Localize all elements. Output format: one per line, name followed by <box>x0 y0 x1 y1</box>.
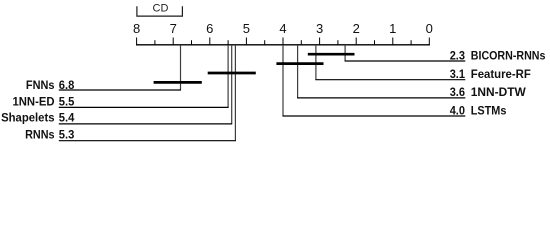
svg-text:CD: CD <box>153 3 169 15</box>
stem Feature-RF <box>315 45 317 80</box>
svg-text:2.3: 2.3 <box>450 49 465 63</box>
svg-text:4: 4 <box>279 21 286 36</box>
svg-text:6.8: 6.8 <box>59 78 75 92</box>
svg-text:FNNs: FNNs <box>26 78 55 92</box>
lead line LSTMs <box>283 115 466 117</box>
lead line RNNs <box>59 140 236 142</box>
stem 1NN-DTW <box>297 45 299 98</box>
label Feature-RF <box>450 67 532 81</box>
stem Shapelets <box>231 45 233 124</box>
svg-text:RNNs: RNNs <box>25 128 55 142</box>
lead line Shapelets <box>59 123 232 125</box>
CD bracket <box>137 6 183 16</box>
svg-text:7: 7 <box>170 21 177 36</box>
svg-text:1NN-DTW: 1NN-DTW <box>471 85 526 99</box>
svg-text:5: 5 <box>243 21 250 36</box>
svg-text:3.1: 3.1 <box>450 67 465 81</box>
stem RNNs <box>234 45 236 141</box>
svg-text:5.4: 5.4 <box>59 111 75 125</box>
label FNNs <box>26 78 75 92</box>
lead line BICORN-RNNs <box>345 60 466 62</box>
stem LSTMs <box>282 45 284 116</box>
svg-text:5.5: 5.5 <box>59 95 75 109</box>
svg-text:1NN-ED: 1NN-ED <box>13 95 55 109</box>
svg-text:4.0: 4.0 <box>450 103 465 117</box>
lead line Feature-RF <box>315 79 465 81</box>
axis numbers <box>133 21 433 36</box>
svg-text:0: 0 <box>426 21 433 36</box>
axis line <box>136 44 430 46</box>
svg-text:1: 1 <box>389 21 396 36</box>
clique bar LSTMs/1NN-DTW/Feature-RF <box>276 62 323 65</box>
svg-text:LSTMs: LSTMs <box>471 103 507 117</box>
lead line FNNs <box>59 89 181 91</box>
svg-text:6: 6 <box>206 21 213 36</box>
label Shapelets <box>1 111 74 125</box>
label RNNs <box>25 128 74 142</box>
svg-text:BICORN-RNNs: BICORN-RNNs <box>471 49 546 63</box>
CD label <box>153 3 169 15</box>
label LSTMs <box>450 103 507 117</box>
axis minor ticks <box>155 40 411 45</box>
lead line 1NN-DTW <box>297 97 465 99</box>
label 1NN-ED <box>13 95 75 109</box>
svg-text:Feature-RF: Feature-RF <box>471 67 531 81</box>
clique bar FNNs <box>154 81 202 84</box>
label 1NN-DTW <box>450 85 526 99</box>
stem 1NN-ED <box>227 45 229 107</box>
svg-text:5.3: 5.3 <box>59 128 75 142</box>
axis major ticks <box>137 38 430 45</box>
svg-text:3.6: 3.6 <box>450 85 465 99</box>
label BICORN-RNNs <box>450 49 546 63</box>
svg-text:2: 2 <box>353 21 360 36</box>
stem FNNs <box>180 45 182 90</box>
lead line 1NN-ED <box>59 106 229 108</box>
svg-text:Shapelets: Shapelets <box>1 111 55 125</box>
clique bar 1NN-ED/Shapelets/RNNs <box>208 72 256 75</box>
svg-text:8: 8 <box>133 21 140 36</box>
stem BICORN-RNNs <box>344 45 346 61</box>
clique bar Feature-RF/BICORN-RNNs <box>308 53 355 56</box>
svg-text:3: 3 <box>316 21 323 36</box>
